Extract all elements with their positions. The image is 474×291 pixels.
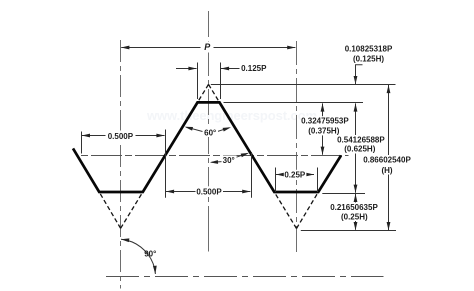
crest flat level line	[224, 102, 364, 104]
svg-text:30°: 30°	[223, 156, 235, 165]
thread profile	[73, 102, 341, 192]
90 deg arc	[121, 239, 155, 274]
dim 0.25P	[276, 174, 314, 176]
svg-text:0.54126588P: 0.54126588P	[337, 135, 385, 144]
60 deg leaders	[187, 127, 204, 131]
pitch line	[81, 155, 349, 157]
dashed sharp root V right	[274, 192, 296, 229]
centerline center crest	[208, 11, 210, 252]
svg-text:(0.375H): (0.375H)	[308, 127, 339, 136]
ext line 0.500P mid	[165, 130, 167, 198]
centerline center crest lower segment	[208, 214, 210, 252]
dim 0.625H vertical	[355, 103, 357, 192]
dim 0.125P	[176, 68, 197, 70]
dashed sharp crest triangle	[198, 84, 209, 102]
svg-text:0.125P: 0.125P	[241, 64, 267, 73]
svg-text:0.25P: 0.25P	[284, 170, 306, 179]
dim H vertical	[388, 85, 390, 230]
dim 0.500P lower	[166, 191, 251, 193]
centerline left valley	[120, 40, 122, 289]
svg-text:0.32475953P: 0.32475953P	[301, 117, 349, 126]
sharp root level line	[301, 230, 396, 232]
root flat level line	[322, 193, 365, 195]
svg-text:90°: 90°	[144, 250, 156, 259]
svg-text:(0.625H): (0.625H)	[344, 145, 375, 154]
dim P line	[121, 47, 295, 49]
centerline right valley	[296, 41, 298, 252]
ext line crest flat left	[197, 63, 199, 100]
dim 0.500P upper left	[82, 135, 165, 137]
svg-text:0.10825318P: 0.10825318P	[345, 45, 393, 54]
ext line root flat right	[317, 168, 319, 193]
text backgrounds	[201, 42, 214, 53]
svg-text:0.500P: 0.500P	[108, 132, 134, 141]
dim 0.25H vertical	[355, 194, 357, 230]
30 deg leaders	[212, 161, 223, 164]
svg-text:60°: 60°	[204, 128, 216, 137]
dashed sharp root V left	[99, 192, 120, 228]
ext line 0.500P left	[81, 132, 83, 154]
dim 0.125H leader hook	[356, 65, 363, 78]
centerline right valley lower segment	[296, 237, 298, 252]
svg-text:0.21650635P: 0.21650635P	[330, 203, 378, 212]
ext line crest flat right	[220, 63, 222, 100]
svg-text:0.86602540P: 0.86602540P	[363, 155, 411, 164]
svg-text:(0.25H): (0.25H)	[341, 212, 368, 221]
thread axis line	[106, 276, 384, 278]
svg-text:P: P	[204, 42, 211, 52]
ext line 0.500P right	[251, 152, 253, 198]
ext line root flat left	[275, 168, 277, 193]
svg-text:(H): (H)	[381, 166, 392, 175]
sharp crest level line	[211, 84, 396, 86]
svg-text:0.500P: 0.500P	[196, 187, 222, 196]
svg-text:(0.125H): (0.125H)	[353, 54, 384, 63]
dim 0.375H vertical	[322, 103, 324, 154]
